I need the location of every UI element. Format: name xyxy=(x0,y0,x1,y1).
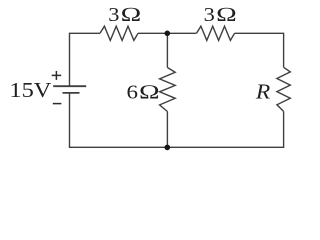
minus sign of battery xyxy=(53,103,62,105)
wire: top-left segment xyxy=(70,33,101,85)
wire: bottom-left segment xyxy=(70,93,168,147)
node A (top junction dot) xyxy=(165,31,171,37)
svg-text:Ω: Ω xyxy=(120,4,141,26)
wire: top-right corner down to R zigzag xyxy=(235,33,284,67)
svg-text:Ω: Ω xyxy=(139,82,160,104)
plus sign of battery xyxy=(52,71,62,80)
wire: middle branch bottom xyxy=(166,112,168,148)
svg-text:3: 3 xyxy=(108,3,119,26)
label 15V for battery xyxy=(9,79,52,102)
wire: right bottom segment xyxy=(167,111,283,147)
label 3ohm for R1 xyxy=(108,3,141,26)
resistor R1 3ohm (top-left zigzag) xyxy=(100,26,138,40)
resistor R (right vertical zigzag) xyxy=(277,67,290,111)
wire: middle branch top xyxy=(166,33,168,67)
battery negative plate (short) xyxy=(63,92,80,94)
svg-text:3: 3 xyxy=(204,3,215,26)
svg-text:Ω: Ω xyxy=(216,4,237,26)
svg-text:15V: 15V xyxy=(9,79,52,102)
label 3ohm for R2 xyxy=(204,3,237,26)
resistor R2 3ohm (top-right zigzag) xyxy=(197,26,235,40)
label 6ohm for R3 xyxy=(127,81,160,104)
node B (bottom junction dot) xyxy=(165,145,171,151)
resistor R3 6ohm (middle vertical zigzag) xyxy=(160,68,176,112)
battery positive plate (long) xyxy=(53,85,86,87)
svg-text:R: R xyxy=(255,79,271,103)
wire: top between R1 and node A xyxy=(138,32,197,34)
label R for right resistor xyxy=(255,79,271,103)
svg-text:6: 6 xyxy=(127,81,139,103)
battery V1 plates xyxy=(53,86,86,93)
